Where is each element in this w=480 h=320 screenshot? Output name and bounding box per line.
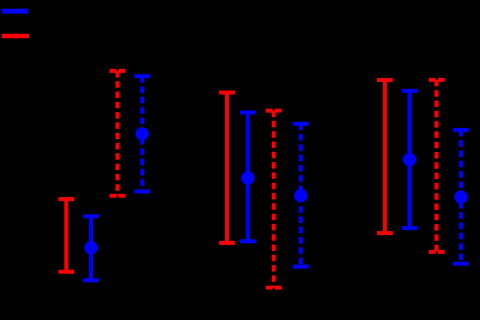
errorbar group1 solid blue [83, 216, 99, 280]
errorbar group1 dashed blue [134, 76, 150, 191]
legend line blue [2, 9, 29, 14]
errorbar group2 solid blue [240, 113, 256, 242]
legend line red [2, 34, 29, 38]
errorbar group2 dashed red [266, 111, 282, 288]
errorbar group1 dashed red [110, 71, 126, 196]
errorbar group3 dashed red [429, 80, 445, 252]
errorbar group3 solid red [377, 80, 393, 233]
errorbar group1 solid red [58, 199, 74, 272]
errorbar group2 solid red [219, 93, 235, 243]
errorbar group3 dashed blue [453, 130, 469, 264]
errorbar group2 dashed blue [293, 124, 309, 267]
errorbar group3 solid blue [402, 91, 418, 228]
